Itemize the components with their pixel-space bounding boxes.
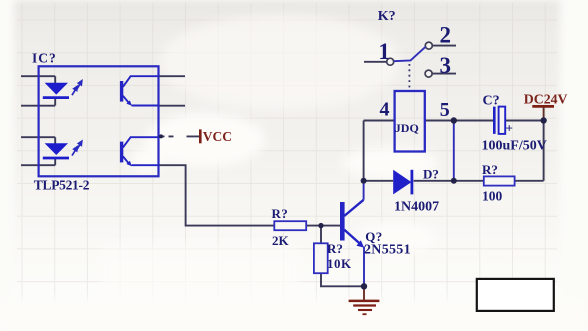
svg-text:D?: D?	[423, 166, 439, 181]
svg-text:DC24V: DC24V	[524, 91, 568, 106]
svg-text:4: 4	[380, 99, 390, 121]
svg-text:2N5551: 2N5551	[364, 243, 411, 258]
svg-text:3: 3	[440, 53, 452, 78]
svg-text:100uF/50V: 100uF/50V	[482, 139, 547, 154]
svg-text:2K: 2K	[272, 233, 290, 248]
svg-text:R?: R?	[272, 206, 289, 221]
svg-text:TLP521-2: TLP521-2	[34, 178, 90, 193]
svg-text:2: 2	[440, 23, 452, 48]
svg-text:100: 100	[482, 189, 503, 204]
svg-text:1: 1	[378, 39, 390, 64]
svg-text:1N4007: 1N4007	[394, 200, 439, 215]
svg-text:IC?: IC?	[32, 51, 57, 66]
svg-text:JDQ: JDQ	[395, 121, 419, 135]
svg-text:C?: C?	[483, 93, 500, 108]
svg-text:K?: K?	[378, 9, 396, 24]
svg-text:R?: R?	[482, 162, 498, 177]
svg-text:VCC: VCC	[203, 129, 232, 144]
svg-text:10K: 10K	[327, 256, 352, 271]
svg-text:5: 5	[440, 99, 450, 121]
svg-text:R?: R?	[327, 241, 343, 256]
svg-text:+: +	[506, 121, 513, 136]
